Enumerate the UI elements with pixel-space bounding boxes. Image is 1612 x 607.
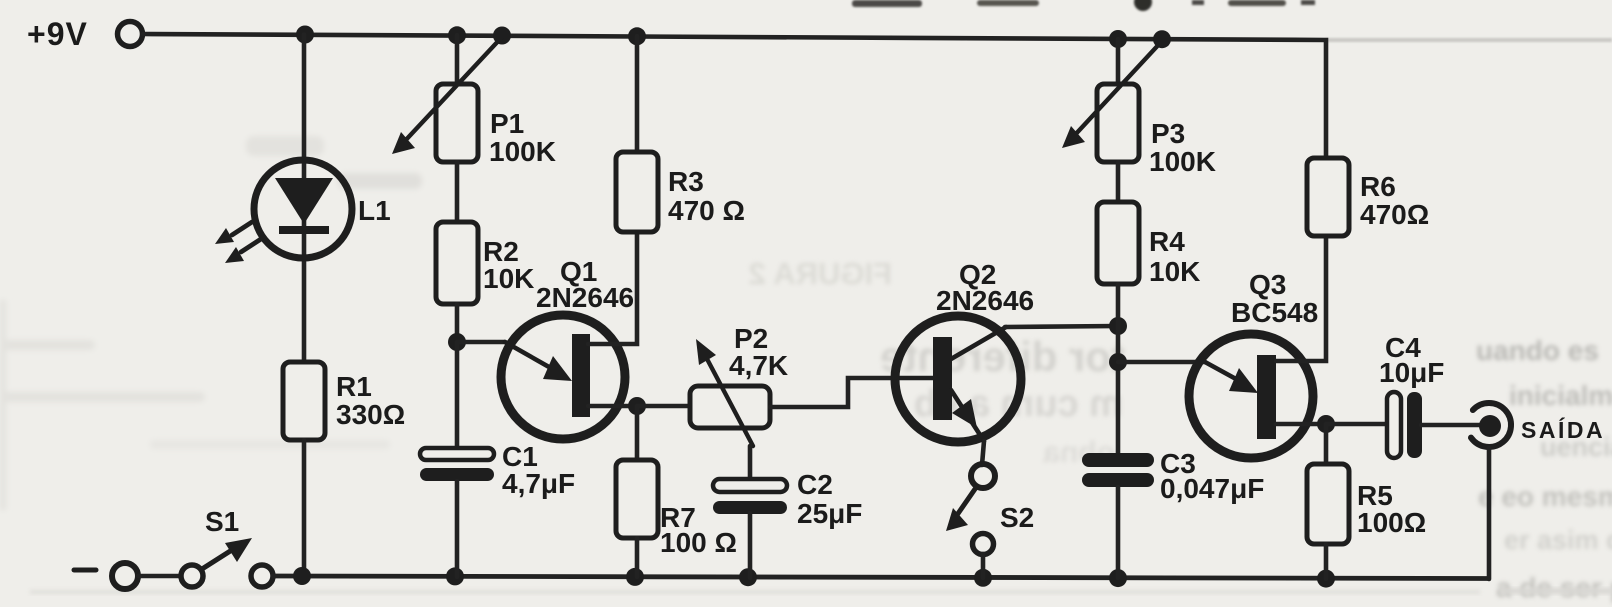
wire Q2 base1 to S2 bbox=[982, 441, 984, 465]
svg-text:S1: S1 bbox=[205, 506, 239, 537]
svg-text:100Ω: 100Ω bbox=[1357, 507, 1426, 538]
potentiometer P3 bbox=[1062, 41, 1162, 162]
label minus terminal bbox=[74, 568, 96, 573]
capacitor C2 bbox=[713, 479, 787, 514]
svg-text:a de ser p: a de ser p bbox=[1496, 572, 1612, 603]
node bottom rail / C2 bbox=[739, 568, 757, 586]
svg-text:SAÍDA: SAÍDA bbox=[1521, 416, 1605, 443]
capacitor C1 bbox=[420, 448, 494, 481]
potentiometer P2 bbox=[690, 339, 770, 480]
wire C4 to output jack bbox=[1421, 423, 1480, 428]
svg-text:inicialme: inicialme bbox=[1509, 380, 1612, 411]
wire P2 to Q2 emitter bbox=[770, 378, 898, 407]
svg-text:10μF: 10μF bbox=[1379, 357, 1444, 388]
svg-text:10K: 10K bbox=[1149, 256, 1200, 287]
svg-text:Q3: Q3 bbox=[1249, 269, 1286, 300]
wire Q1 base2 to R3 bbox=[588, 232, 637, 344]
label Q1 2N2646 bbox=[536, 256, 634, 313]
wire rail to P3 bbox=[1116, 39, 1121, 84]
node top rail / P3 wiper bbox=[1153, 30, 1171, 48]
+9V supply terminal bbox=[118, 22, 143, 47]
resistor R1 bbox=[283, 362, 325, 440]
label S2 bbox=[1000, 502, 1034, 533]
wire R2 to emitter node bbox=[455, 304, 460, 342]
svg-text:0,047μF: 0,047μF bbox=[1160, 473, 1264, 504]
svg-text:BC548: BC548 bbox=[1231, 297, 1318, 328]
wire R7 to bottom rail bbox=[635, 538, 640, 577]
label +9V bbox=[27, 16, 88, 52]
wire rail to R3 bbox=[635, 36, 640, 152]
svg-text:e eo mesm: e eo mesm bbox=[1478, 481, 1612, 512]
label R6 470 ohm bbox=[1360, 171, 1429, 230]
node bottom rail / S2 bbox=[974, 569, 992, 587]
svg-text:100K: 100K bbox=[1149, 146, 1216, 177]
node Q3 base1 bbox=[1317, 415, 1335, 433]
svg-text:P1: P1 bbox=[490, 108, 524, 139]
wire rail to L1 and through to R1 bbox=[302, 35, 307, 363]
wire Q1 base1 bbox=[588, 404, 637, 409]
wire node to C1 bbox=[455, 342, 460, 450]
wire C1 to bottom rail bbox=[455, 481, 460, 577]
resistor R4 bbox=[1097, 202, 1139, 284]
wire node to R7 bbox=[635, 406, 640, 460]
wire node to C4 bbox=[1326, 422, 1388, 427]
svg-text:4,7μF: 4,7μF bbox=[502, 468, 575, 499]
svg-text:R1: R1 bbox=[336, 371, 372, 402]
wire Q3 base2 to R6 bbox=[1276, 236, 1326, 361]
capacitor C4 bbox=[1387, 392, 1422, 458]
wire C2 to bottom rail bbox=[748, 513, 753, 578]
label P3 100K bbox=[1149, 118, 1216, 177]
transistor Q3 bbox=[1189, 334, 1313, 458]
svg-text:P3: P3 bbox=[1151, 118, 1185, 149]
label R5 100 ohm bbox=[1357, 480, 1426, 538]
transistor Q1 bbox=[501, 315, 625, 439]
wire rail to P1 bbox=[455, 35, 460, 84]
label P2 4,7K bbox=[729, 323, 788, 381]
label Q3 BC548 bbox=[1231, 269, 1318, 328]
svg-text:10K: 10K bbox=[483, 263, 534, 294]
LED L1 bbox=[215, 160, 352, 263]
resistor R3 bbox=[616, 152, 658, 232]
wire Q2 base2 to node bbox=[1005, 326, 1118, 327]
label P1 100K bbox=[489, 108, 556, 167]
wire node to Q3 emitter bbox=[1118, 360, 1205, 365]
wire +9V top rail bbox=[143, 34, 1326, 158]
label C1 4,7uF bbox=[502, 441, 575, 499]
label R3 470 ohm bbox=[668, 166, 745, 226]
node top rail / P3 column bbox=[1109, 30, 1127, 48]
svg-text:C2: C2 bbox=[797, 469, 833, 500]
resistor R7 bbox=[616, 460, 658, 538]
node top rail / L1 bbox=[296, 26, 314, 44]
wire R5 to bottom rail bbox=[1324, 544, 1329, 579]
wire bottom rail bbox=[273, 576, 1488, 579]
svg-text:L1: L1 bbox=[358, 195, 391, 226]
svg-text:2N2646: 2N2646 bbox=[536, 282, 634, 313]
capacitor C3 bbox=[1082, 453, 1154, 487]
label C3 0,047uF bbox=[1160, 448, 1264, 504]
label SAIDA bbox=[1521, 416, 1605, 443]
svg-text:+9V: +9V bbox=[27, 16, 88, 52]
label R4 10K bbox=[1149, 226, 1200, 287]
label Q2 2N2646 bbox=[936, 259, 1034, 316]
wire Q1 emitter lead bbox=[457, 340, 505, 345]
node Q1 base1 bbox=[628, 397, 646, 415]
switch S2 bbox=[946, 464, 995, 578]
wire node to P2 bbox=[637, 404, 690, 409]
label C2 25uF bbox=[797, 469, 862, 529]
node top rail / P1 bbox=[448, 26, 466, 44]
wire jack to bottom rail bbox=[1487, 448, 1492, 579]
resistor R5 bbox=[1307, 464, 1349, 544]
svg-text:100K: 100K bbox=[489, 136, 556, 167]
label C4 10uF bbox=[1379, 332, 1444, 388]
node Q3 emitter feed bbox=[1109, 353, 1127, 371]
node bottom rail / C1 bbox=[446, 567, 464, 585]
svg-text:100 Ω: 100 Ω bbox=[660, 527, 737, 558]
node bottom rail / R7 bbox=[626, 568, 644, 586]
svg-text:4,7K: 4,7K bbox=[729, 350, 788, 381]
potentiometer P1 bbox=[392, 37, 502, 162]
svg-text:470 Ω: 470 Ω bbox=[668, 195, 745, 226]
node bottom rail / R1 bbox=[293, 567, 311, 585]
wire P3 to R4 bbox=[1116, 162, 1121, 202]
switch S1 bbox=[112, 538, 273, 589]
label L1 bbox=[358, 195, 391, 226]
svg-text:330Ω: 330Ω bbox=[336, 399, 405, 430]
wire R4 to C3 bbox=[1116, 284, 1121, 455]
svg-text:S2: S2 bbox=[1000, 502, 1034, 533]
node Q1 emitter bbox=[448, 333, 466, 351]
wire node to R5 bbox=[1324, 424, 1329, 464]
label R1 330 ohm bbox=[336, 371, 405, 430]
label R2 10K bbox=[483, 236, 534, 294]
svg-text:2N2646: 2N2646 bbox=[936, 285, 1034, 316]
wire Q3 base1 bbox=[1276, 422, 1326, 427]
svg-text:R4: R4 bbox=[1149, 226, 1185, 257]
label R7 100 ohm bbox=[660, 502, 737, 558]
node top rail / R3 bbox=[628, 27, 646, 45]
output jack bbox=[1471, 403, 1511, 447]
resistor R6 bbox=[1307, 158, 1349, 236]
svg-text:25μF: 25μF bbox=[797, 498, 862, 529]
node bottom rail / R5 bbox=[1317, 570, 1335, 588]
svg-text:R3: R3 bbox=[668, 166, 704, 197]
label S1 bbox=[205, 506, 239, 537]
svg-text:FIGURA 2: FIGURA 2 bbox=[748, 256, 892, 291]
node Q2 base2 bbox=[1109, 317, 1127, 335]
resistor R2 bbox=[436, 222, 478, 304]
transistor Q2 bbox=[895, 316, 1021, 442]
node bottom rail / C3 bbox=[1109, 569, 1127, 587]
wire C3 to bottom rail bbox=[1116, 487, 1121, 578]
svg-text:R6: R6 bbox=[1360, 171, 1396, 202]
wire P1 to R2 bbox=[455, 162, 460, 222]
svg-text:uando es: uando es bbox=[1476, 335, 1599, 366]
svg-text:er asim d: er asim d bbox=[1504, 525, 1612, 555]
svg-text:470Ω: 470Ω bbox=[1360, 199, 1429, 230]
wire R1 to bottom rail bbox=[302, 440, 307, 576]
node top rail / P1 wiper bbox=[493, 27, 511, 45]
